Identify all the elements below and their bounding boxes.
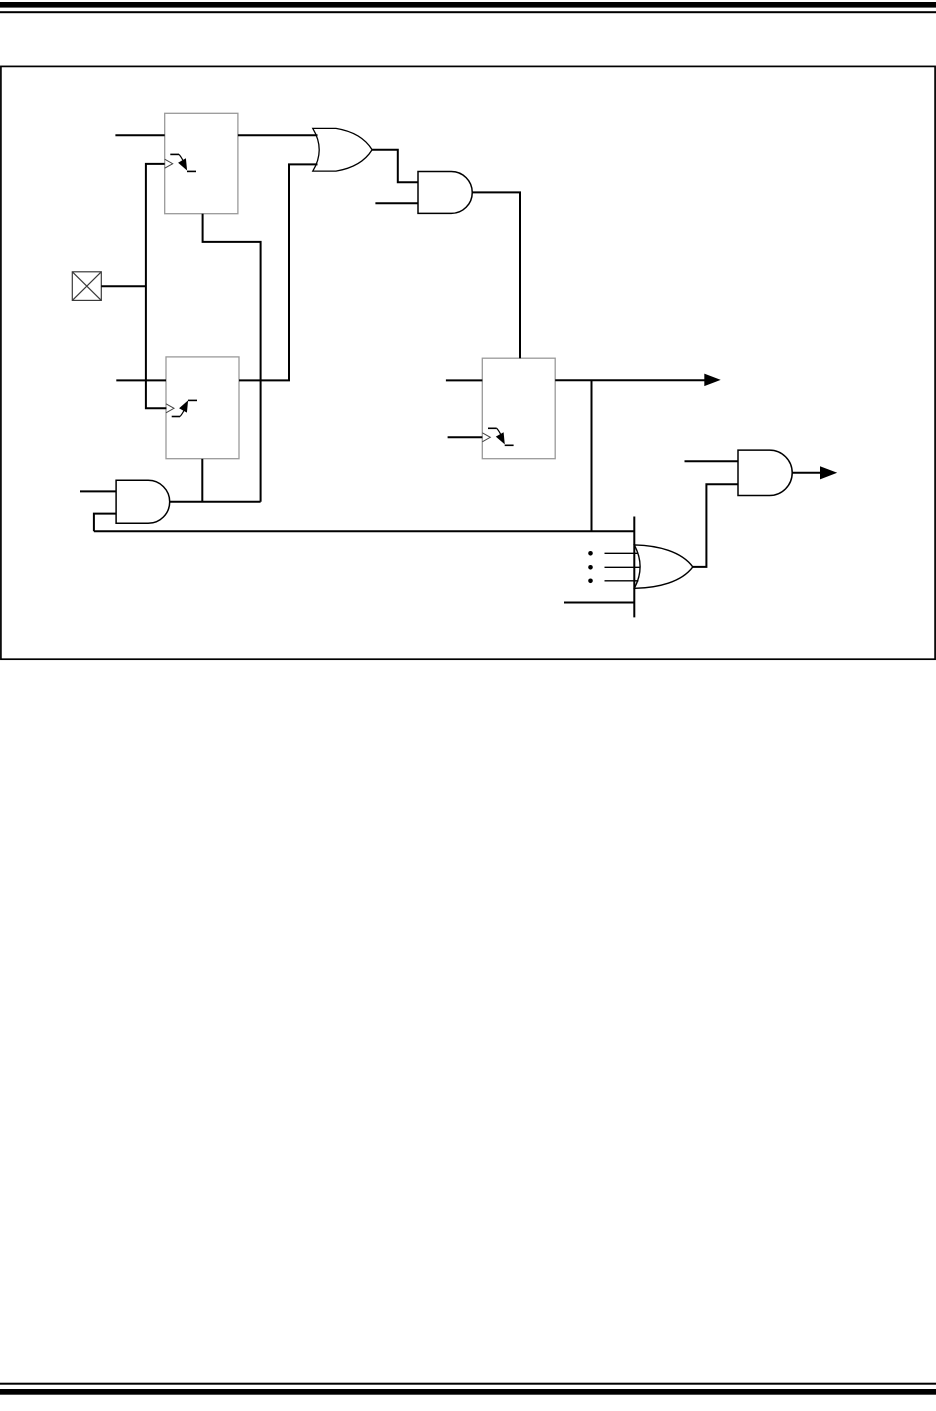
crystal X1 (crossed box) bbox=[72, 272, 101, 301]
wire: U3 Q drop to long feedback wire bbox=[591, 380, 593, 531]
wire: G2 output down to U3 clock-enable top pin bbox=[472, 192, 520, 358]
arrowhead: G5 output bbox=[820, 466, 837, 479]
wire: G2 second input stub bbox=[375, 202, 418, 204]
wire: G3 bottom input from long wire corner bbox=[94, 514, 116, 532]
wire: U2 bottom pin down to G3 output wire bbox=[201, 459, 203, 502]
wire: long bottom wire to G4 input line bbox=[94, 530, 634, 532]
wire: U1 D input stub bbox=[115, 134, 164, 136]
flip-flop U2 (lower-left latch) bbox=[166, 357, 239, 459]
U2 rising-edge symbol bbox=[172, 400, 197, 416]
wire: G4 bottom input stub bbox=[564, 602, 634, 604]
flip-flop U3 (output latch) bbox=[482, 358, 555, 459]
wire: G4 output up to G5 bottom input bbox=[693, 484, 738, 567]
OR gate G1 (2-input) bbox=[313, 128, 372, 171]
wire: U1 bottom pin route down to G3 output wire bbox=[203, 214, 261, 502]
footer rule thin bbox=[0, 1383, 936, 1385]
U1 falling-edge symbol bbox=[170, 154, 196, 171]
wire: U3 Q output to arrow bbox=[555, 379, 705, 381]
figure frame bbox=[1, 66, 935, 659]
wire: G4 ellipsis input stub 3 bbox=[605, 580, 639, 582]
wire: G1 output to G2 first input bbox=[372, 150, 418, 182]
wire: G3 top input stub bbox=[80, 490, 116, 492]
OR gate G4 (multi-input) bbox=[634, 545, 693, 588]
wire: U1 Q output to G1 top input bbox=[238, 134, 318, 136]
footer rule thick bbox=[0, 1389, 936, 1395]
U2 clock chevron bbox=[166, 404, 174, 413]
wire: G5 top input stub bbox=[685, 460, 739, 462]
wire: G3 output to feedback node bbox=[170, 501, 261, 503]
wire: U2 D input stub bbox=[116, 379, 166, 381]
U3 clock chevron bbox=[482, 433, 490, 442]
header rule thick bbox=[0, 2, 936, 8]
node: ellipsis dot 3 bbox=[588, 579, 593, 584]
AND gate G5 (output) bbox=[738, 450, 792, 495]
wire: crystal output to clock net bbox=[101, 285, 146, 287]
wire: G4 vertical input line bbox=[633, 517, 635, 618]
wire: U3 D input stub bbox=[446, 379, 482, 381]
U1 clock chevron bbox=[165, 159, 173, 168]
node: ellipsis dot 2 bbox=[588, 565, 593, 570]
wire: U2 Q output up to G1 bottom input bbox=[239, 164, 318, 380]
flip-flop U1 (top latch) bbox=[165, 113, 238, 213]
U3 falling-edge symbol bbox=[488, 428, 514, 445]
wire: clock net U1 to U2 bbox=[146, 164, 167, 408]
wire: G4 ellipsis input stub 2 bbox=[605, 566, 641, 568]
arrowhead: U3 output bbox=[704, 374, 720, 387]
AND gate G2 (top) bbox=[418, 172, 472, 214]
wire: G4 ellipsis input stub 1 bbox=[605, 552, 639, 554]
wire: G5 output to arrow bbox=[792, 472, 821, 474]
header rule thin bbox=[0, 11, 936, 13]
wire: U3 clock input stub bbox=[448, 436, 483, 438]
node: ellipsis dot 1 bbox=[588, 551, 593, 556]
AND gate G3 (lower-left) bbox=[116, 480, 170, 523]
